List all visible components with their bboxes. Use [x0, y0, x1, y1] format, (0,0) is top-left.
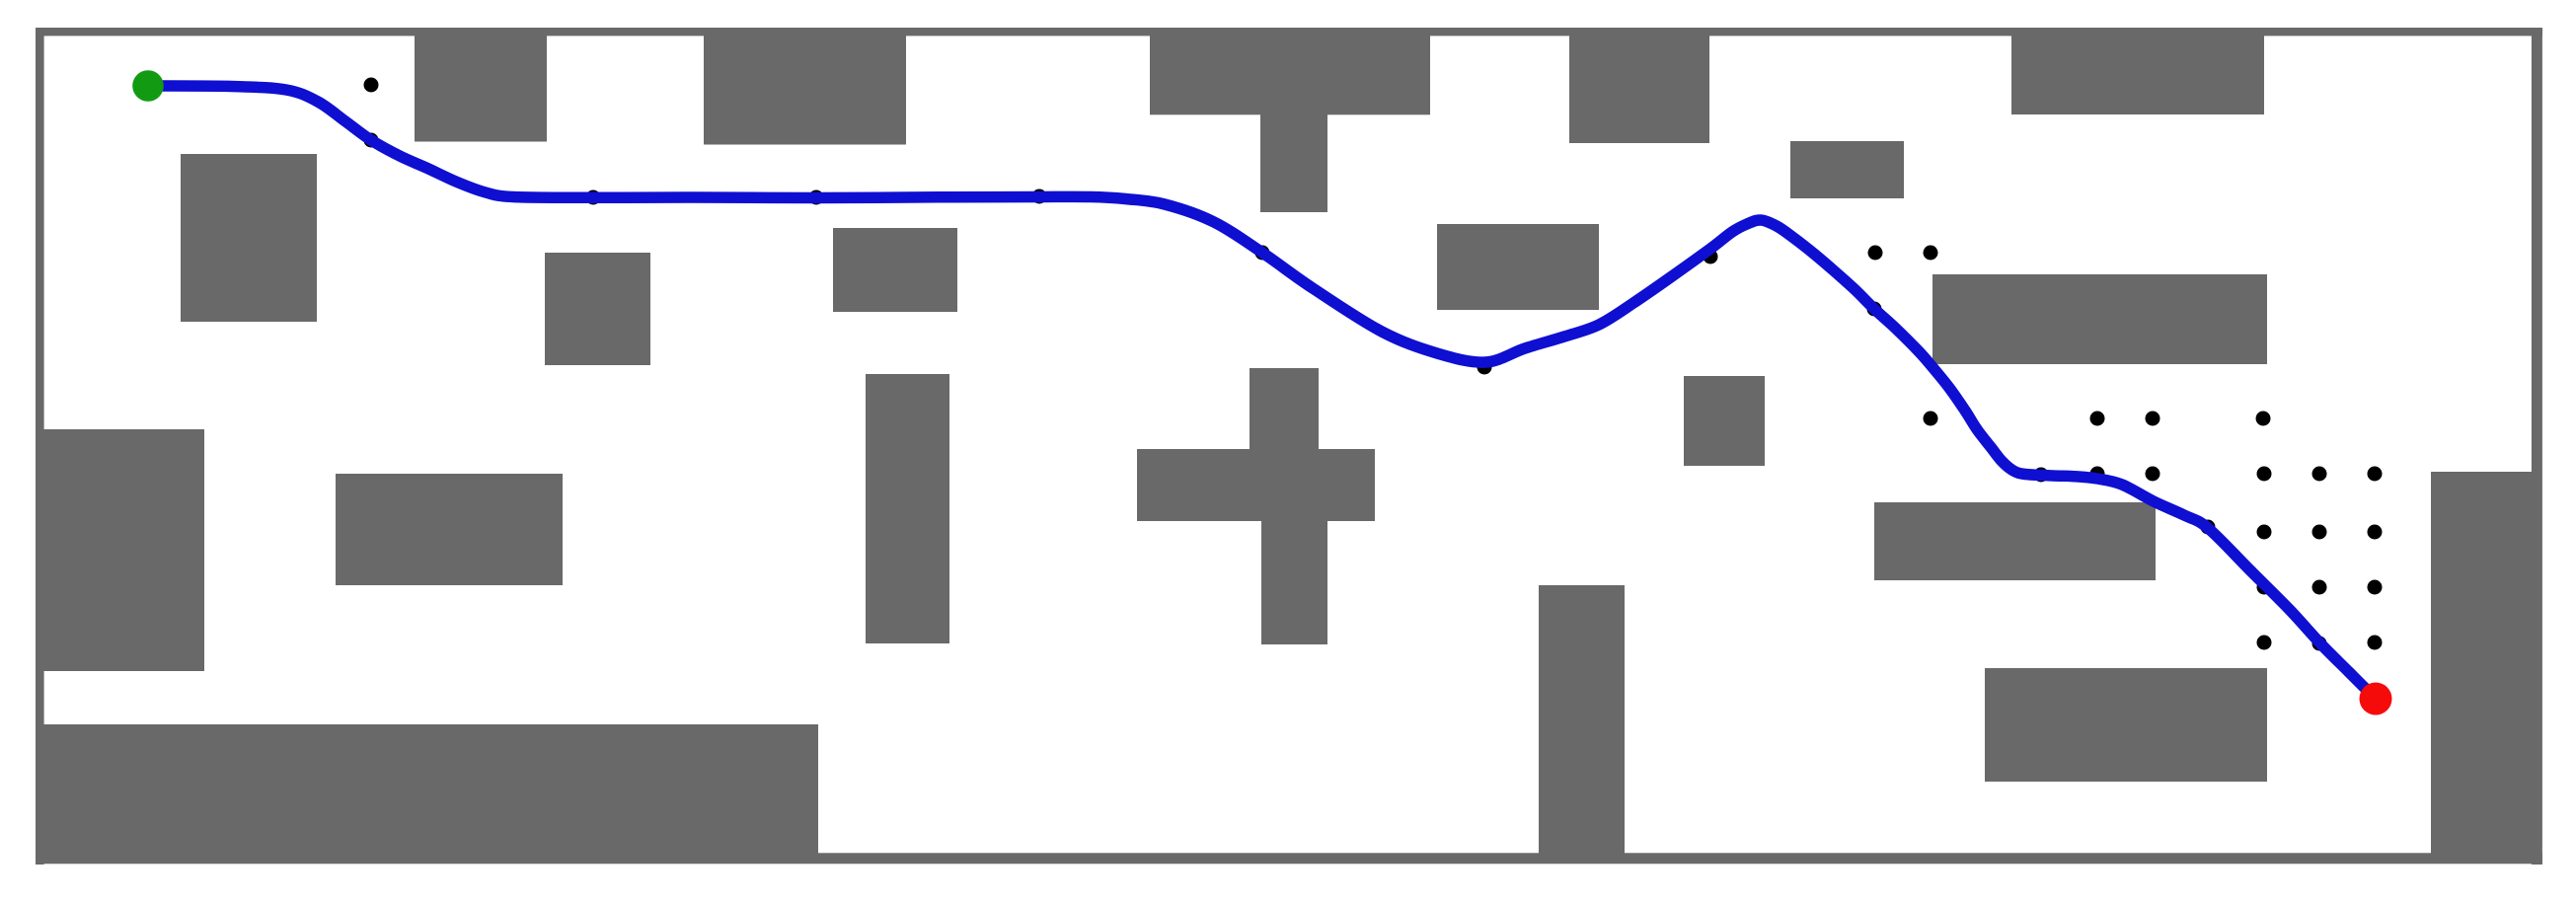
obstacle center rect	[1437, 224, 1599, 310]
waypoint dot on path (1053,199)	[1032, 189, 1047, 204]
frame bottom border	[36, 853, 2542, 864]
free sample dot (2181,424)	[2146, 412, 2160, 426]
free sample dot (2406,539)	[2368, 525, 2383, 540]
goal point (red)	[2360, 683, 2392, 715]
obstacle left block	[36, 429, 204, 671]
free sample dot (2350,539)	[2312, 525, 2327, 540]
obstacle top 2	[704, 30, 906, 145]
obstacle top 4	[2011, 30, 2264, 114]
frame right border	[2532, 28, 2542, 865]
sample point dots	[364, 78, 2383, 651]
free sample dot (2350,480)	[2312, 467, 2327, 482]
waypoint dot on path (376,142)	[364, 133, 379, 148]
obstacle tall bar	[866, 374, 949, 643]
waypoint dot on path (1504,372)	[1477, 360, 1492, 375]
frame left border	[36, 28, 44, 865]
waypoint dot on path (2350,652)	[2312, 637, 2327, 651]
waypoint dot on path (2068,481)	[2034, 468, 2049, 483]
obstacle right long	[1932, 274, 2267, 364]
obstacle right rect 1	[1874, 502, 2156, 580]
free sample dot (2293,424)	[2256, 412, 2271, 426]
cross mid bar	[1137, 449, 1375, 521]
waypoint dot on path (2237,534)	[2201, 520, 2216, 535]
obstacle mid rect	[833, 228, 957, 312]
waypoint dot on path (1733,260)	[1704, 250, 1718, 264]
waypoint dot on path (1279,256)	[1255, 246, 1270, 261]
free sample dot (2125,480)	[2090, 467, 2105, 482]
obstacle right rect 2	[1985, 668, 2267, 782]
free sample dot (1900,256)	[1868, 246, 1883, 261]
free sample dot (2406,595)	[2368, 580, 2383, 595]
planned path (blue spline from start to goal)	[148, 86, 2376, 699]
free sample dot (2294,539)	[2257, 525, 2272, 540]
obstacle small block	[1684, 376, 1765, 466]
waypoint dot on path (601,200)	[586, 190, 601, 205]
free sample dot (2181,480)	[2146, 467, 2160, 482]
obstacle bottom pillar	[1539, 585, 1625, 864]
cross bottom leg	[1261, 519, 1327, 644]
free sample dot (2294,480)	[2257, 467, 2272, 482]
cross top leg	[1250, 368, 1319, 451]
obstacle top 1	[415, 30, 547, 142]
obstacle left low rect	[336, 474, 563, 585]
waypoint dot on path (827,200)	[809, 190, 824, 205]
obstacle T block	[1150, 30, 1430, 114]
free sample dot (2406,480)	[2368, 467, 2383, 482]
obstacle mid square	[545, 253, 650, 365]
free sample dot (1956,256)	[1924, 246, 1938, 261]
obstacle top 3	[1569, 30, 1709, 143]
free sample dot (2125,424)	[2090, 412, 2105, 426]
obstacle right tall	[2431, 472, 2541, 864]
free sample dot (2294,651)	[2257, 636, 2272, 650]
free sample dot (1956,424)	[1924, 412, 1938, 426]
free sample dot (2350,595)	[2312, 580, 2327, 595]
obstacle bottom bar	[42, 724, 818, 864]
start point (green)	[132, 70, 164, 102]
free sample dot (376,86)	[364, 78, 379, 93]
obstacle small mid	[1790, 141, 1904, 198]
obstacle left tall	[181, 154, 317, 322]
free sample dot (2294,595)	[2257, 580, 2272, 595]
frame top border	[36, 28, 2542, 36]
obstacle T leg	[1260, 111, 1327, 212]
waypoint dot on path (1899,313)	[1867, 302, 1882, 317]
free sample dot (2406,651)	[2368, 636, 2383, 650]
